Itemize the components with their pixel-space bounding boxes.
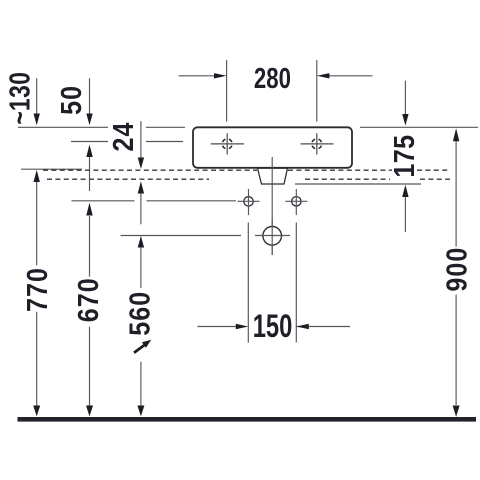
svg-text:560: 560 xyxy=(124,291,156,336)
svg-text:~130: ~130 xyxy=(5,72,36,125)
svg-text:175: 175 xyxy=(389,134,421,177)
svg-text:900: 900 xyxy=(441,247,473,292)
svg-text:24: 24 xyxy=(108,122,140,152)
svg-text:50: 50 xyxy=(56,85,88,115)
svg-text:770: 770 xyxy=(22,267,54,312)
svg-text:670: 670 xyxy=(73,277,105,322)
svg-text:280: 280 xyxy=(254,63,291,94)
svg-text:150: 150 xyxy=(253,308,293,345)
